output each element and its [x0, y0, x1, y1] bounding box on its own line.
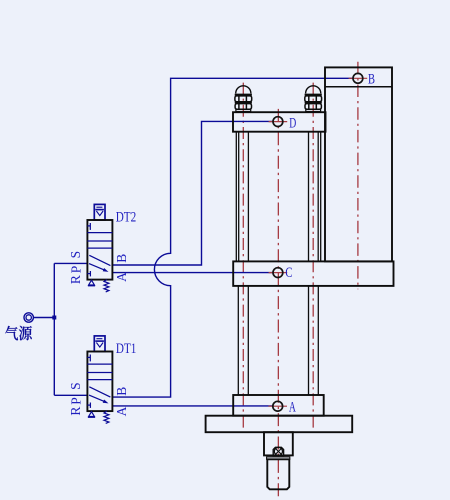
node B crosshair	[349, 77, 368, 79]
node D	[273, 117, 283, 127]
node A	[273, 401, 283, 411]
base plate	[206, 416, 353, 433]
svg-text:S: S	[68, 251, 83, 259]
svg-text:R: R	[68, 407, 83, 416]
wire DT2 port B to node D	[112, 121, 273, 265]
lower head plate	[233, 395, 324, 416]
upper cylinder walls	[236, 132, 320, 262]
svg-text:DT1: DT1	[116, 341, 136, 357]
rod end fitting	[273, 447, 283, 455]
centerline main axis	[277, 109, 279, 498]
solenoid actuator DT1	[94, 336, 105, 352]
blocked port tick top DT1	[87, 356, 90, 358]
port fitting right	[305, 86, 322, 112]
air source symbol	[24, 313, 33, 322]
flow path lines DT2	[89, 255, 110, 265]
port letters DT1	[68, 382, 129, 416]
svg-text:R: R	[68, 275, 83, 284]
exhaust triangle DT1	[89, 412, 95, 417]
svg-text:B: B	[368, 72, 375, 88]
junction	[52, 316, 56, 320]
svg-text:D: D	[289, 115, 296, 131]
tall cylinder body	[325, 67, 392, 261]
wire bus to DT1 P	[54, 394, 87, 396]
wire air source to bus	[34, 317, 55, 319]
centerline right port	[312, 83, 314, 431]
svg-text:S: S	[68, 382, 83, 390]
svg-text:A: A	[114, 406, 129, 416]
centerline left port	[242, 83, 244, 431]
blocked port tick bottom DT1	[87, 404, 90, 406]
exhaust triangle DT2	[89, 280, 95, 285]
solenoid actuator DT2	[94, 204, 105, 220]
middle plate	[233, 261, 393, 286]
svg-text:P: P	[68, 397, 83, 405]
svg-text:DT2: DT2	[116, 210, 137, 226]
spring DT1	[104, 411, 109, 423]
svg-text:P: P	[68, 266, 83, 274]
piston rod	[267, 459, 289, 489]
wire DT1 port A to node A	[112, 405, 272, 407]
svg-text:B: B	[114, 387, 129, 396]
node A crosshair	[268, 405, 287, 407]
wire DT1 port B to node B with crossover hop	[112, 78, 353, 397]
wire supply bus	[53, 263, 55, 395]
tall cylinder head line	[325, 86, 392, 88]
wire DT2 port A to node C	[112, 272, 273, 274]
flow path lines DT1	[89, 387, 110, 397]
label 气源 (air source)	[5, 326, 32, 340]
blocked port tick bottom DT2	[87, 273, 90, 275]
spring DT2	[104, 280, 109, 292]
valve DT1 body	[87, 352, 112, 412]
svg-text:A: A	[289, 399, 296, 415]
port fitting left	[235, 86, 252, 112]
piston rod cap	[267, 457, 290, 459]
port letters DT2	[68, 251, 129, 284]
lower cylinder walls	[238, 286, 318, 395]
node D crosshair	[269, 121, 288, 123]
node B	[353, 73, 363, 83]
svg-text:C: C	[285, 265, 292, 281]
wire bus to DT2 P	[54, 262, 87, 264]
upper head plate	[233, 112, 326, 132]
centerline tall cylinder	[357, 62, 359, 289]
rod housing block	[264, 432, 293, 455]
blocked port tick top DT2	[87, 225, 90, 227]
svg-text:B: B	[114, 254, 129, 263]
node C crosshair	[269, 272, 288, 274]
valve DT2 body	[87, 220, 112, 280]
node C	[273, 268, 283, 278]
svg-text:A: A	[114, 272, 129, 282]
